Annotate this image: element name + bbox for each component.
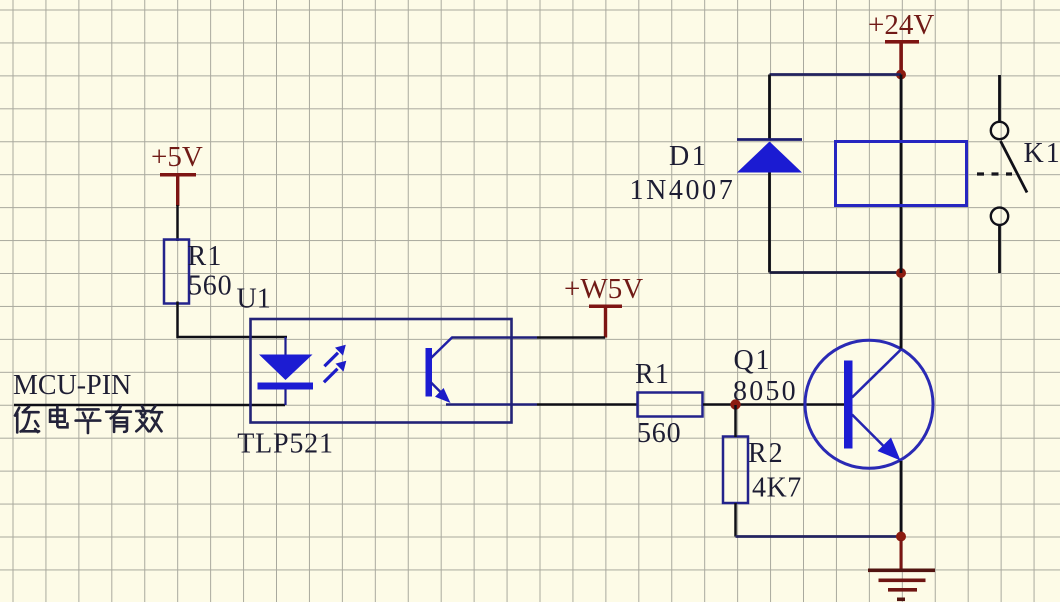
LED cathode bar [258,383,314,390]
svg-text:R1: R1 [188,241,223,272]
resistor R1 (vertical) [164,240,189,304]
svg-text:+24V: +24V [868,9,934,41]
svg-text:560: 560 [188,271,232,302]
LED anode pin drop [284,337,286,355]
svg-text:+5V: +5V [151,141,203,173]
transistor Q1 base bar [844,361,853,449]
svg-text:560: 560 [637,418,681,449]
wire bottom rail to relay node [770,271,902,274]
phototransistor emitter stroke [431,382,442,393]
wire opto to R1 [537,403,638,406]
wire +5V to R1 [176,205,179,241]
node +24V junction [896,70,906,80]
pin U1 collector (top right) [452,336,537,339]
transistor Q1 circle [805,340,933,468]
svg-text:TLP521: TLP521 [237,429,334,460]
wire MCU-PIN net [14,404,285,407]
power +W5V [564,273,643,338]
transistor Q1 collector stroke [852,349,902,398]
svg-text:K1: K1 [1024,138,1060,169]
node label 低电平有效 (hand-drawn glyphs) [15,406,162,433]
wire node to R2 [734,405,737,437]
svg-text:8050: 8050 [733,376,798,407]
switch lower contact circle [991,208,1008,225]
phototransistor collector stroke [431,337,453,358]
svg-text:U1: U1 [237,284,271,315]
node emitter-ground junction [896,532,906,542]
switch upper contact circle [991,122,1008,139]
power +24V [868,9,934,72]
char 电 [50,407,67,428]
svg-text:Q1: Q1 [734,345,772,376]
transistor Q1 emitter stroke [852,415,888,451]
wire switch lower pin [998,225,1001,273]
power +5V [151,141,203,206]
phototransistor emitter arrowhead [435,388,451,403]
diode D1 triangle [737,142,802,173]
ground [868,540,935,601]
char 平 [76,409,101,433]
resistor R1 (horizontal) [638,393,703,417]
wire ground rail horizontal [736,535,902,538]
resistor R2 [723,437,748,504]
char 有 [106,406,131,432]
node relay bottom junction [896,268,906,278]
svg-text:D1: D1 [669,141,708,172]
svg-text:4K7: 4K7 [752,473,802,504]
switch blade [1001,141,1028,193]
op-amp U1 optocoupler box TLP521 [251,319,512,423]
switch actuator dashed link [977,172,1012,175]
pin U1 emitter (bottom right) [446,403,537,406]
wire R1 to opto corner [178,302,288,338]
wire R2 to ground rail [734,503,737,537]
wire opto to +W5V [537,336,605,339]
transistor Q1 emitter arrowhead [878,438,901,461]
diode D1 cathode bar [737,138,802,141]
phototransistor base bar of U1 [426,348,433,397]
wire relay coil vertical [900,75,903,274]
light arrow 1 [324,345,345,367]
LED triangle of U1 [259,355,313,381]
wire +24V rail to diode branch [770,73,902,76]
wire collector up to relay node [900,274,903,349]
wire emitter down [900,461,903,537]
svg-text:R1: R1 [635,359,670,390]
relay K1 coil box [836,142,967,206]
wire R1 to base node [703,403,844,406]
wire switch upper pin [998,75,1001,122]
LED cathode pin drop [284,389,286,405]
char 效 [136,406,162,431]
svg-text:MCU-PIN: MCU-PIN [13,370,131,401]
wire diode bottom [768,173,771,273]
light arrow 2 [324,361,346,383]
svg-text:+W5V: +W5V [564,273,643,305]
char 低 [15,407,39,433]
node base junction [730,399,740,409]
svg-text:R2: R2 [748,438,785,469]
wire diode top [768,75,771,140]
svg-text:1N4007: 1N4007 [630,175,736,206]
